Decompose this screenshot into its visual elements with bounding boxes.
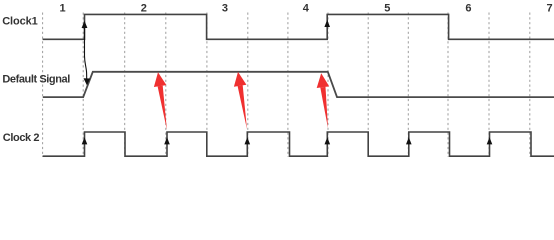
edge marker arrow Clock1 rise 1 xyxy=(82,21,88,28)
edge marker arrow Clock1 rise 2 xyxy=(324,20,330,27)
gridline g7 xyxy=(327,13,329,158)
svg-text:Clock1: Clock1 xyxy=(2,16,37,28)
gridline g3 xyxy=(165,13,167,158)
gridline g4 xyxy=(206,13,208,158)
red cause arrow 3 Clock2 edge to Default Signal xyxy=(317,73,330,128)
svg-text:4: 4 xyxy=(303,3,310,15)
svg-text:Default Signal: Default Signal xyxy=(2,74,70,86)
annotation cause line Clock1 edge to Default Signal xyxy=(85,22,87,79)
svg-text:Clock 2: Clock 2 xyxy=(3,132,40,144)
svg-text:5: 5 xyxy=(384,3,390,15)
gridline g11 xyxy=(488,13,490,158)
wire signal Clock 2 waveform xyxy=(43,132,554,156)
svg-text:1: 1 xyxy=(60,3,66,15)
red cause arrow 1 Clock2 edge to Default Signal xyxy=(154,72,167,130)
gridline g1 xyxy=(82,13,84,158)
gridline g9 xyxy=(407,13,409,158)
gridline g6 xyxy=(287,13,289,158)
edge marker arrow Clock2 rise 1 xyxy=(82,137,88,144)
edge marker arrow Clock2 rise 5 xyxy=(406,137,412,144)
gridline g12 xyxy=(529,13,531,158)
edge marker arrow Clock2 rise 2 xyxy=(164,137,170,144)
svg-text:3: 3 xyxy=(222,3,228,15)
edge marker arrow Clock2 rise 6 xyxy=(487,137,493,144)
edge marker arrow Clock2 rise 4 xyxy=(325,137,331,144)
wire signal Default Signal waveform xyxy=(43,72,554,97)
gridline g8 xyxy=(367,13,369,158)
svg-text:2: 2 xyxy=(141,3,147,15)
red cause arrow 2 Clock2 edge to Default Signal xyxy=(234,72,247,129)
svg-text:6: 6 xyxy=(465,3,471,15)
annotation down arrowhead on Default Signal transition xyxy=(84,78,91,85)
wire signal Clock1 waveform xyxy=(43,14,554,39)
gridline g5 xyxy=(247,13,249,158)
gridline g0 xyxy=(42,13,44,158)
edge marker arrow Clock2 rise 3 xyxy=(245,137,251,144)
gridline g2 xyxy=(124,13,126,158)
gridline g10 xyxy=(447,13,449,158)
svg-text:7: 7 xyxy=(547,3,553,15)
